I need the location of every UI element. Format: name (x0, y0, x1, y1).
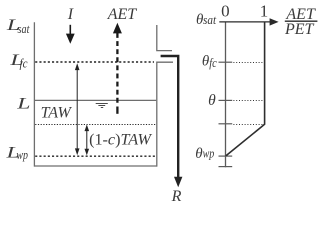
bucket bottom (34, 165, 156, 167)
svg-text:I: I (67, 6, 74, 23)
(1-c) level fine dotted line (35, 124, 156, 126)
svg-text:sat: sat (203, 12, 216, 27)
tick break level (219, 123, 233, 125)
svg-text:0: 0 (221, 1, 230, 20)
water level line at L (35, 99, 156, 101)
svg-text:fc: fc (20, 56, 28, 71)
infiltration arrow I (66, 25, 75, 44)
bucket left wall (33, 22, 35, 166)
bucket right wall upper with spout upper lip (157, 25, 172, 51)
svg-text:L: L (16, 96, 31, 113)
runoff pipe / R thick line (161, 56, 183, 187)
tick theta_wp (219, 155, 233, 157)
svg-text:R: R (171, 188, 182, 205)
svg-text:θ: θ (208, 92, 216, 109)
L_fc dotted line (35, 61, 154, 63)
theta axis vertical (225, 22, 227, 167)
AET/PET curve (226, 22, 265, 156)
dotted guide at theta_fc (233, 62, 264, 64)
svg-text:fc: fc (209, 55, 217, 70)
top axis 0 to 1 with arrow (219, 18, 278, 25)
tick theta_fc (219, 61, 233, 63)
tick theta (219, 99, 233, 101)
TAW double arrow (75, 63, 80, 155)
svg-text:wp: wp (16, 147, 28, 162)
svg-text:(1-c)TAW: (1-c)TAW (89, 131, 153, 148)
svg-text:wp: wp (203, 146, 215, 161)
svg-text:sat: sat (18, 21, 30, 36)
svg-text:TAW: TAW (41, 104, 73, 121)
bucket right wall lower with spout lower lip (157, 62, 173, 166)
tick axis bottom (219, 166, 233, 168)
svg-text:PET: PET (284, 21, 315, 38)
svg-text:AET: AET (107, 6, 138, 23)
water table symbol (96, 104, 108, 108)
dotted guide at break level (233, 124, 264, 126)
dotted guide at theta (233, 100, 264, 102)
svg-text:1: 1 (260, 2, 269, 21)
(1-c)TAW double arrow (85, 125, 90, 156)
AET dashed arrow (113, 23, 122, 114)
L_wp dashed line (35, 155, 156, 157)
